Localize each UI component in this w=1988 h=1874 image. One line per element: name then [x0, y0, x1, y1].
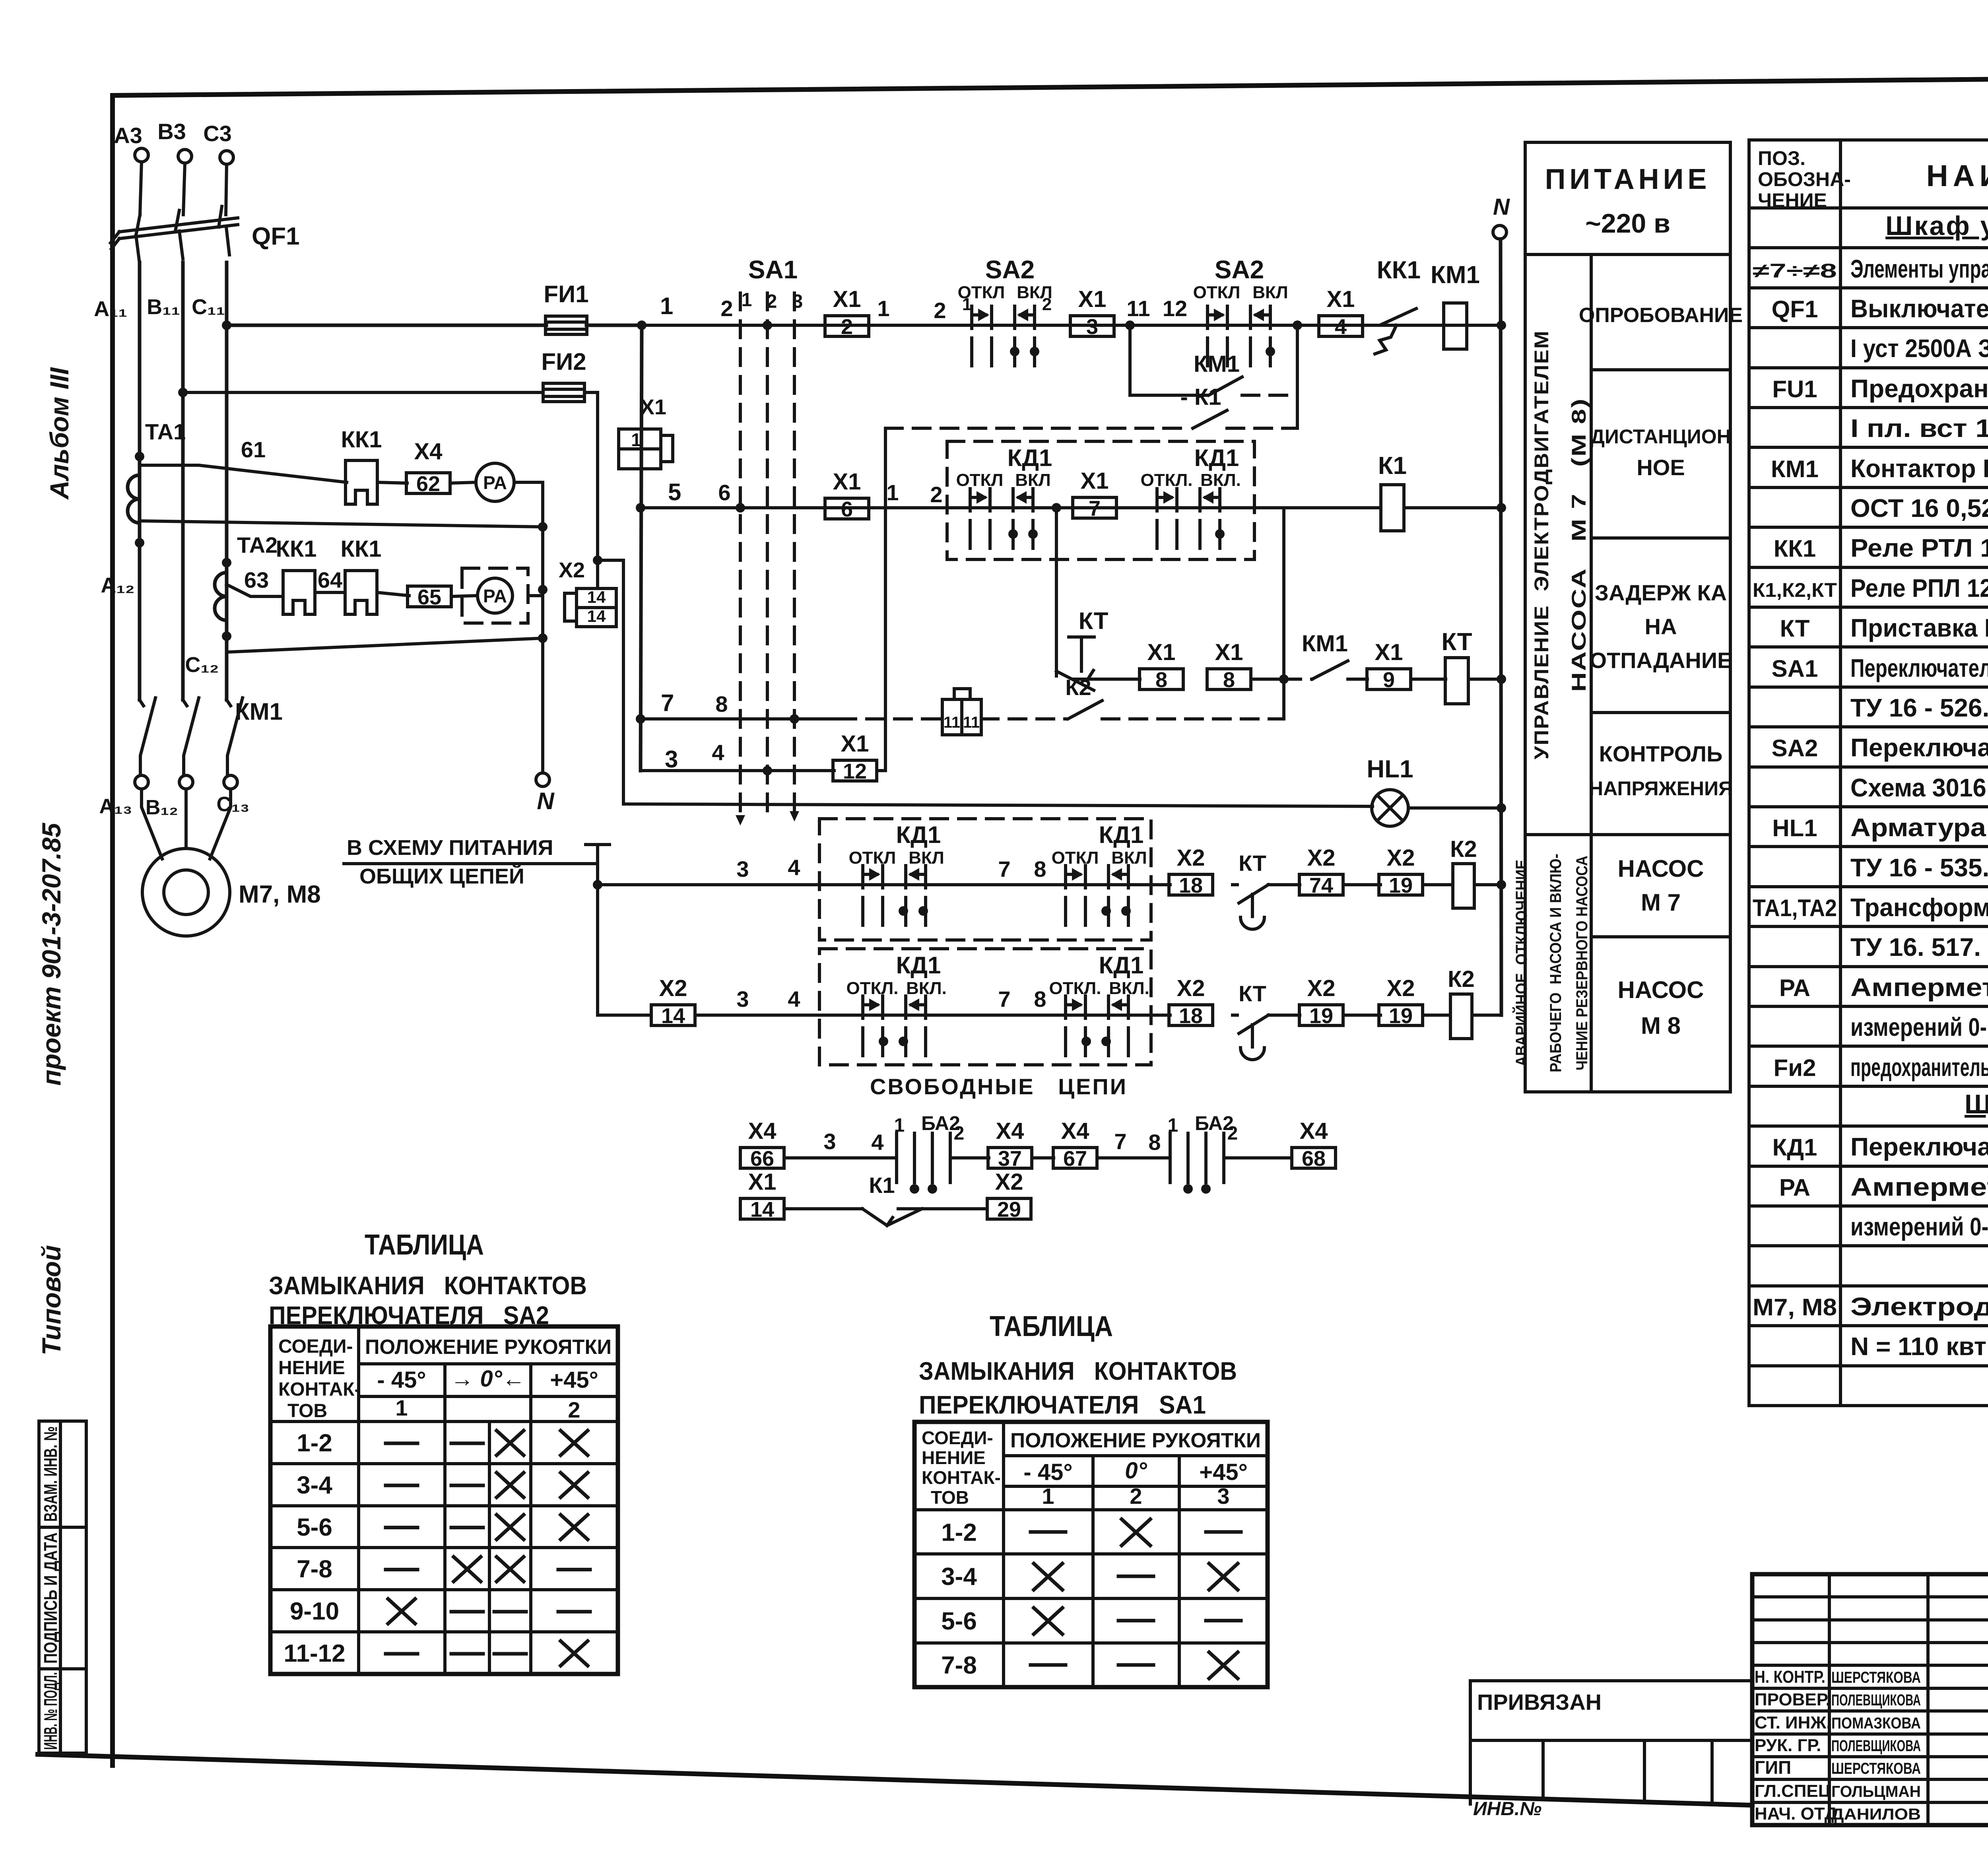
N bus vertical: [1501, 239, 1501, 1015]
svg-text:НАСОСА М 7 (М 8): НАСОСА М 7 (М 8): [1568, 398, 1590, 692]
svg-text:КМ1: КМ1: [235, 698, 283, 725]
svg-text:1: 1: [886, 480, 899, 505]
pushbutton KT branch: [1055, 508, 1058, 676]
svg-text:ОПРОБОВАНИЕ: ОПРОБОВАНИЕ: [1579, 304, 1743, 327]
relay contact K1 11-11 block: [942, 699, 962, 735]
svg-text:Х2: Х2: [1387, 975, 1415, 1001]
svg-text:SA2: SA2: [1772, 735, 1818, 761]
svg-text:ВКЛ: ВКЛ: [909, 848, 944, 868]
svg-text:ЗАДЕРЖ КА: ЗАДЕРЖ КА: [1595, 580, 1727, 605]
svg-text:67: 67: [1063, 1147, 1087, 1171]
connector X2 14 M8: [651, 1005, 695, 1025]
svg-text:2: 2: [930, 482, 942, 507]
connector X1 6: [825, 498, 869, 519]
node row1-right: [1293, 320, 1302, 330]
svg-text:КД1: КД1: [1773, 1134, 1817, 1161]
svg-text:А3: А3: [114, 123, 142, 148]
svg-text:КД1: КД1: [1099, 952, 1144, 979]
svg-text:В₁₂: В₁₂: [146, 796, 178, 819]
svg-text:Типовой: Типовой: [37, 1245, 66, 1355]
svg-text:ИНВ.№: ИНВ.№: [1473, 1798, 1541, 1820]
svg-text:предохранитель ПРС 6УЗ-П I пл.: предохранитель ПРС 6УЗ-П I пл.вст=1А ТУ1…: [1850, 1053, 1988, 1082]
svg-text:1: 1: [877, 296, 889, 321]
switch KD1 group2: [1157, 489, 1220, 548]
svg-text:66: 66: [750, 1147, 774, 1171]
svg-text:НА: НА: [1645, 614, 1677, 639]
svg-text:НАЧ. ОТД: НАЧ. ОТД: [1755, 1804, 1837, 1824]
svg-text:61: 61: [241, 437, 266, 462]
svg-text:КК1: КК1: [276, 536, 316, 562]
svg-text:НАПРЯЖЕНИЯ: НАПРЯЖЕНИЯ: [1589, 777, 1733, 800]
svg-text:Х2: Х2: [1307, 975, 1336, 1001]
svg-text:1: 1: [1168, 1115, 1178, 1136]
svg-text:КД1: КД1: [1194, 445, 1239, 471]
svg-text:КМ1: КМ1: [1194, 351, 1240, 377]
switch SA2 free group2: [1170, 1133, 1224, 1183]
svg-text:65: 65: [417, 585, 441, 609]
svg-text:КД1: КД1: [1008, 445, 1052, 471]
svg-text:1: 1: [742, 289, 752, 311]
svg-text:ВКЛ: ВКЛ: [1111, 848, 1147, 868]
switch SA2 group1: [972, 306, 1035, 366]
svg-text:12: 12: [843, 759, 867, 783]
svg-text:ОСТ 16 0,52 4.001 - 72: ОСТ 16 0,52 4.001 - 72: [1850, 494, 1988, 522]
svg-text:1-2: 1-2: [941, 1519, 977, 1546]
svg-text:2: 2: [954, 1123, 965, 1144]
svg-text:7-8: 7-8: [297, 1556, 332, 1583]
svg-text:63: 63: [244, 567, 269, 592]
svg-text:ОТКЛ.: ОТКЛ.: [846, 979, 898, 998]
phase wire A11: [138, 262, 142, 700]
svg-text:FИ1: FИ1: [544, 281, 588, 307]
switch KD1 group1 M7: [863, 866, 926, 925]
connector X4 68: [1292, 1148, 1336, 1168]
svg-text:Н. КОНТР.: Н. КОНТР.: [1755, 1667, 1825, 1687]
svg-text:ТА1: ТА1: [145, 419, 186, 444]
contactor KM1 main contacts: [140, 698, 155, 775]
svg-text:1: 1: [631, 429, 641, 450]
svg-text:ТА2: ТА2: [237, 532, 278, 557]
svg-text:8: 8: [1148, 1130, 1161, 1155]
svg-text:М 7: М 7: [1641, 889, 1681, 916]
svg-text:- К1: - К1: [1180, 384, 1221, 410]
wire C3 stub: [226, 164, 227, 215]
svg-text:Альбом III: Альбом III: [45, 367, 74, 500]
connector X2 14/14: [596, 560, 599, 588]
wire row1: [642, 324, 1501, 327]
node 1: [637, 320, 646, 330]
svg-text:74: 74: [1309, 874, 1333, 897]
svg-text:КК1: КК1: [1377, 256, 1421, 284]
svg-text:К1: К1: [869, 1173, 895, 1198]
svg-text:4: 4: [1335, 315, 1347, 339]
svg-text:НЕНИЕ: НЕНИЕ: [278, 1357, 345, 1379]
terminal C3: [220, 151, 233, 164]
svg-text:ДИСТАНЦИОН: ДИСТАНЦИОН: [1590, 425, 1731, 448]
svg-text:ПОМАЗКОВА: ПОМАЗКОВА: [1831, 1715, 1921, 1732]
svg-text:SA2: SA2: [1215, 255, 1264, 284]
svg-text:Х2: Х2: [995, 1169, 1023, 1195]
svg-text:ПРИВЯЗАН: ПРИВЯЗАН: [1477, 1690, 1602, 1715]
motor M7,M8: [142, 789, 231, 859]
svg-text:62: 62: [416, 472, 440, 496]
svg-text:Арматура АМЕ 32322124 2: Арматура АМЕ 32322124 2 ~ 220 В: [1850, 813, 1988, 842]
svg-text:1: 1: [395, 1395, 408, 1420]
svg-text:8: 8: [1155, 668, 1167, 692]
svg-text:1: 1: [894, 1115, 905, 1136]
svg-text:Х2: Х2: [659, 975, 687, 1001]
switch KD1 group1: [970, 489, 1033, 548]
svg-text:ВКЛ.: ВКЛ.: [1109, 979, 1149, 998]
svg-text:ВКЛ: ВКЛ: [1252, 283, 1288, 302]
svg-text:I пл. вст 10А ТУ 16 - 522.: I пл. вст 10А ТУ 16 - 522. 112 - 74.: [1850, 414, 1988, 443]
svg-text:Х1: Х1: [833, 469, 861, 495]
connector X4 66: [740, 1148, 784, 1168]
svg-text:Х2: Х2: [1177, 845, 1205, 871]
svg-text:≠7÷≠8: ≠7÷≠8: [1753, 260, 1837, 282]
svg-text:N = 110 квт: N = 110 квт: [1850, 1332, 1986, 1361]
svg-text:РУК. ГР.: РУК. ГР.: [1755, 1736, 1821, 1755]
svg-text:19: 19: [1389, 1004, 1413, 1028]
svg-text:Электродвигатель 4А 315: Электродвигатель 4А 315S6 УЗ: [1850, 1292, 1988, 1321]
svg-text:Х1: Х1: [833, 286, 861, 312]
connector X4 62: [406, 473, 450, 493]
svg-text:Х1: Х1: [1078, 286, 1107, 312]
svg-text:ПОЗ.: ПОЗ.: [1758, 147, 1806, 169]
switch KD1 group2 M8: [1066, 996, 1128, 1056]
svg-text:12: 12: [1163, 296, 1187, 321]
svg-text:ТА1,ТА2: ТА1,ТА2: [1753, 895, 1837, 921]
svg-text:АВАРИЙНОЕ ОТКЛЮЧЕНИЕ: АВАРИЙНОЕ ОТКЛЮЧЕНИЕ: [1512, 860, 1530, 1066]
connector X2 19b M8: [1379, 1005, 1423, 1025]
svg-text:1: 1: [660, 293, 673, 319]
svg-text:ТАБЛИЦА: ТАБЛИЦА: [365, 1229, 484, 1261]
node M7 feed: [593, 880, 602, 889]
svg-text:2: 2: [1042, 295, 1052, 314]
svg-text:8: 8: [1034, 987, 1046, 1012]
svg-text:РА: РА: [1779, 1174, 1810, 1201]
svg-text:КД1: КД1: [1099, 821, 1144, 848]
connector X1 8: [1140, 669, 1183, 689]
svg-text:Предохранитель ПРС - 25 УЗ-: Предохранитель ПРС - 25 УЗ-П: [1850, 374, 1988, 403]
svg-text:8: 8: [715, 691, 728, 717]
connector X2 18 M7: [1169, 874, 1213, 895]
svg-text:Х1: Х1: [841, 731, 869, 757]
remote switch KD1 box M7: [819, 819, 1151, 940]
connector X1 12: [833, 760, 877, 781]
svg-text:В₁₁: В₁₁: [147, 295, 180, 319]
svg-text:ПЕРЕКЛЮЧАТЕЛЯ SA1: ПЕРЕКЛЮЧАТЕЛЯ SA1: [919, 1390, 1206, 1419]
connector 65: [408, 586, 451, 607]
motor terminals: [135, 775, 148, 789]
svg-text:НАСОС: НАСОС: [1617, 977, 1704, 1003]
wire pump M8 feed: [598, 885, 651, 1015]
phase wire B11: [181, 262, 185, 700]
svg-text:ПОЛЕВЩИКОВА: ПОЛЕВЩИКОВА: [1831, 1737, 1921, 1755]
svg-text:5-6: 5-6: [941, 1608, 977, 1635]
left margin rotated captions: [37, 367, 74, 1355]
svg-text:А₁₁: А₁₁: [94, 297, 127, 321]
svg-text:Х4: Х4: [996, 1118, 1024, 1144]
svg-text:QF1: QF1: [1772, 296, 1818, 322]
svg-text:64: 64: [318, 567, 342, 592]
svg-text:HL1: HL1: [1772, 815, 1817, 841]
svg-text:+45°: +45°: [550, 1367, 598, 1393]
node KT branch: [1052, 503, 1061, 513]
svg-text:С3: С3: [203, 121, 232, 146]
svg-text:4: 4: [788, 855, 800, 880]
svg-text:Переключатель ПКУЗ - 12А - 30: Переключатель ПКУЗ - 12А - 3016: [1850, 1132, 1988, 1161]
remote switch KD1 box M8: [819, 949, 1151, 1065]
connector X1 3: [1070, 316, 1114, 336]
wire pump M7 row: [598, 883, 1170, 886]
svg-text:6: 6: [718, 480, 730, 505]
svg-text:ВКЛ: ВКЛ: [1015, 470, 1051, 490]
wire 1 row: [227, 324, 546, 327]
svg-text:проект 901-3-207.85: проект 901-3-207.85: [37, 822, 66, 1086]
SA2 contact closure table: [269, 1229, 618, 1674]
svg-text:ПОДПИСЬ И ДАТА: ПОДПИСЬ И ДАТА: [40, 1532, 61, 1664]
svg-text:1: 1: [962, 295, 972, 314]
connector X1 9: [1367, 669, 1411, 689]
svg-text:К1: К1: [1378, 452, 1407, 480]
svg-text:FU1: FU1: [1772, 376, 1817, 402]
svg-text:Х1: Х1: [1327, 286, 1355, 312]
ammeter PA lower (dashed): [462, 568, 528, 623]
switch KD1 group1 M8: [863, 996, 926, 1056]
thermal element KK1b: [345, 571, 377, 614]
KM1 aux contact branch: [1130, 325, 1206, 395]
svg-text:измерений 0- 300А ТТ 300/5А: измерений 0- 300А ТТ 300/5А ТУ 25.04-130…: [1850, 1013, 1988, 1041]
svg-text:4: 4: [871, 1130, 883, 1155]
svg-text:5: 5: [668, 479, 681, 505]
svg-text:7: 7: [998, 987, 1010, 1012]
svg-text:Переключатель ПКУЗ-12СУЗ Схема: Переключатель ПКУЗ-12СУЗ Схема 2024 рук.…: [1850, 654, 1988, 682]
wire FU2 to X2-14 drop: [584, 392, 598, 560]
svg-text:Контактор КТ 6033УЗ ~ 220 В: Контактор КТ 6033УЗ ~ 220 В б/к 23. 2р: [1850, 454, 1988, 483]
svg-text:СВОБОДНЫЕ ЦЕПИ: СВОБОДНЫЕ ЦЕПИ: [870, 1074, 1128, 1099]
svg-text:Х1: Х1: [1081, 468, 1109, 494]
node 7: [636, 714, 645, 724]
svg-text:Х1: Х1: [640, 395, 666, 419]
svg-text:11: 11: [1126, 296, 1150, 321]
svg-text:19: 19: [1309, 1004, 1333, 1028]
terminal N left: [536, 773, 549, 786]
contact -K1 branch: [885, 427, 1190, 430]
svg-text:2: 2: [934, 298, 946, 323]
svg-text:SA2: SA2: [985, 255, 1035, 284]
svg-text:1-2: 1-2: [297, 1429, 332, 1457]
svg-text:14: 14: [661, 1004, 685, 1028]
svg-text:С₁₂: С₁₂: [185, 653, 219, 677]
svg-text:ПОЛОЖЕНИЕ РУКОЯТКИ: ПОЛОЖЕНИЕ РУКОЯТКИ: [365, 1336, 612, 1359]
svg-text:ПРОВЕР.: ПРОВЕР.: [1755, 1690, 1831, 1709]
svg-text:1: 1: [1042, 1484, 1054, 1509]
svg-text:А₁₃: А₁₃: [99, 795, 132, 818]
svg-text:Х4: Х4: [1300, 1118, 1328, 1144]
svg-text:4: 4: [788, 987, 800, 1012]
connector X2 18 M8: [1169, 1005, 1213, 1025]
svg-text:2: 2: [568, 1397, 580, 1422]
svg-text:КТ: КТ: [1441, 628, 1472, 656]
svg-text:ОБЩИХ ЦЕПЕЙ: ОБЩИХ ЦЕПЕЙ: [359, 864, 524, 888]
connector X1 2: [825, 316, 869, 336]
svg-text:Схема 3016 рук. рев. ТУ 16 -: Схема 3016 рук. рев. ТУ 16 - 526.047- 74: [1850, 773, 1988, 802]
svg-text:КОНТРОЛЬ: КОНТРОЛЬ: [1599, 741, 1723, 766]
svg-text:К2: К2: [1065, 675, 1091, 700]
svg-text:2: 2: [1227, 1123, 1238, 1144]
svg-text:+45°: +45°: [1199, 1459, 1248, 1485]
svg-text:3-4: 3-4: [941, 1563, 977, 1590]
fuse FU2: [543, 383, 584, 402]
svg-text:НАИМЕНОВАНИЕ: НАИМЕНОВАНИЕ: [1926, 159, 1988, 193]
connector X4 37: [988, 1148, 1032, 1168]
node FU2 drop: [593, 555, 602, 565]
svg-text:Амперметр Э 377 кл. 1. 0: Амперметр Э 377 кл. 1. 0 предел: [1850, 973, 1988, 1002]
svg-text:КК1: КК1: [1774, 535, 1816, 562]
svg-text:ТАБЛИЦА: ТАБЛИЦА: [990, 1311, 1113, 1342]
svg-text:В3: В3: [157, 119, 186, 144]
svg-text:УПРАВЛЕНИЕ ЭЛЕКТРОДВИГАТЕЛЕМ: УПРАВЛЕНИЕ ЭЛЕКТРОДВИГАТЕЛЕМ: [1530, 330, 1553, 759]
svg-text:НАСОС: НАСОС: [1617, 855, 1704, 882]
svg-text:5-6: 5-6: [297, 1514, 332, 1541]
svg-text:- 45°: - 45°: [377, 1367, 426, 1393]
svg-text:КОНТАК-: КОНТАК-: [278, 1379, 361, 1400]
parts list table: [1749, 140, 1988, 1406]
wire A3 stub: [140, 162, 142, 215]
connector X1 14: [740, 1198, 784, 1219]
svg-text:Х4: Х4: [1061, 1118, 1089, 1144]
svg-text:ДАНИЛОВ: ДАНИЛОВ: [1831, 1806, 1921, 1823]
svg-text:измерений 0-300А ТТ 300/5А: измерений 0-300А ТТ 300/5А ТУ 25.04-1308…: [1850, 1212, 1988, 1241]
svg-text:М7, М8: М7, М8: [1753, 1294, 1837, 1321]
svg-text:7: 7: [661, 689, 674, 716]
svg-text:Переключатель ПКУЗ - 12А УЗ: Переключатель ПКУЗ - 12А УЗ: [1850, 733, 1988, 762]
svg-text:2: 2: [841, 315, 853, 339]
svg-text:РА: РА: [483, 472, 507, 493]
wire 61 row: [138, 456, 141, 475]
svg-text:ТУ 16. 517. 442 - 80: ТУ 16. 517. 442 - 80: [1850, 933, 1988, 961]
node B11-FU2: [178, 388, 188, 397]
svg-text:ОТКЛ.: ОТКЛ.: [1049, 979, 1101, 998]
svg-text:7: 7: [998, 856, 1010, 882]
svg-text:ПИТАНИЕ: ПИТАНИЕ: [1545, 163, 1711, 195]
svg-text:Элементы управления электродв: Элементы управления электродвигателями М…: [1850, 254, 1988, 283]
svg-text:Х2: Х2: [1307, 845, 1336, 871]
switch SA2 group2: [1208, 306, 1270, 366]
svg-text:КМ1: КМ1: [1302, 631, 1348, 656]
contact K2: [1068, 701, 1102, 719]
svg-text:К2: К2: [1448, 966, 1475, 992]
connector X1 1 on bus: [619, 429, 661, 449]
svg-text:14: 14: [750, 1198, 774, 1221]
svg-text:М 8: М 8: [1641, 1012, 1681, 1039]
svg-text:КК1: КК1: [340, 536, 381, 562]
svg-text:Х2: Х2: [1387, 845, 1415, 871]
svg-text:7-8: 7-8: [941, 1652, 977, 1679]
svg-text:ПОЛОЖЕНИЕ РУКОЯТКИ: ПОЛОЖЕНИЕ РУКОЯТКИ: [1010, 1429, 1261, 1452]
svg-text:Реле РТЛ 100804ТУ 16 - 523.: Реле РТЛ 100804ТУ 16 - 523. 549 - 82: [1850, 534, 1988, 562]
svg-text:Шкаф управления Ш7 (Ш8): Шкаф управления Ш7 (Ш8): [1885, 211, 1988, 241]
svg-text:КОНТАК-: КОНТАК-: [922, 1467, 1001, 1488]
svg-text:9: 9: [1383, 668, 1395, 692]
wire TA2 return: [227, 638, 543, 652]
svg-text:С₁₁: С₁₁: [192, 295, 225, 319]
svg-text:ТОВ: ТОВ: [931, 1487, 969, 1508]
svg-text:18: 18: [1179, 1004, 1203, 1028]
svg-text:Х2: Х2: [559, 558, 585, 582]
thermal element KK1a: [283, 571, 315, 614]
title block: [1470, 1574, 1988, 1860]
svg-text:СОЕДИ-: СОЕДИ-: [278, 1336, 353, 1357]
svg-text:2: 2: [1130, 1484, 1142, 1509]
svg-text:ОБОЗНА-: ОБОЗНА-: [1758, 168, 1851, 190]
wire to lamp bus: [598, 560, 1373, 806]
svg-text:ОТКЛ: ОТКЛ: [956, 470, 1004, 490]
thermal element KK1: [346, 460, 377, 504]
circuit breaker QF1: [119, 218, 238, 239]
wire row2: [641, 506, 947, 509]
svg-text:ОТКЛ: ОТКЛ: [1193, 283, 1241, 302]
svg-text:ОТКЛ: ОТКЛ: [849, 848, 896, 868]
svg-text:- 45°: - 45°: [1023, 1459, 1072, 1485]
svg-text:19: 19: [1389, 874, 1413, 897]
svg-text:11: 11: [944, 714, 960, 731]
connector X1 7: [1073, 497, 1116, 518]
svg-text:ШЕРСТЯКОВА: ШЕРСТЯКОВА: [1831, 1760, 1921, 1777]
left margin stamp boxes: [39, 1421, 86, 1753]
svg-text:3: 3: [1086, 315, 1098, 339]
svg-text:ШЕРСТЯКОВА: ШЕРСТЯКОВА: [1831, 1669, 1921, 1686]
node 11: [1125, 320, 1135, 330]
svg-text:К2: К2: [1450, 836, 1477, 862]
svg-text:0°: 0°: [1125, 1458, 1147, 1484]
svg-text:ЧЕНИЕ: ЧЕНИЕ: [1758, 189, 1827, 212]
svg-text:РА: РА: [483, 586, 507, 606]
svg-text:КТ: КТ: [1239, 851, 1266, 876]
svg-text:N: N: [537, 788, 555, 814]
connector X2 19 M7: [1379, 874, 1423, 895]
svg-text:КД1: КД1: [896, 952, 941, 979]
svg-text:СОЕДИ-: СОЕДИ-: [922, 1427, 993, 1448]
svg-text:ВЗАМ. ИНВ. №: ВЗАМ. ИНВ. №: [40, 1426, 61, 1522]
svg-text:ТОВ: ТОВ: [287, 1400, 327, 1422]
svg-text:Х1: Х1: [1147, 639, 1176, 665]
svg-text:6: 6: [841, 497, 853, 521]
wire FU2 row: [183, 391, 543, 394]
svg-text:3: 3: [736, 987, 749, 1012]
svg-text:Реле РПЛ 1220×4 ~220 В ТУ 16: Реле РПЛ 1220×4 ~220 В ТУ 16-523.554-78: [1850, 574, 1988, 602]
svg-text:SA1: SA1: [748, 255, 798, 284]
terminal N right: [1493, 225, 1507, 239]
svg-text:РАБОЧЕГО НАСОСА И ВКЛЮ-: РАБОЧЕГО НАСОСА И ВКЛЮ-: [1547, 854, 1565, 1072]
svg-text:КМ1: КМ1: [1771, 456, 1819, 482]
svg-text:Х4: Х4: [748, 1118, 777, 1144]
remote switch KD1 dashed box: [947, 441, 1254, 559]
fuse FU1: [546, 316, 587, 334]
svg-text:7: 7: [1089, 497, 1101, 520]
SA1 contact closure table: [914, 1311, 1268, 1687]
svg-text:14: 14: [587, 607, 606, 625]
terminal A3: [135, 148, 148, 162]
svg-text:9-10: 9-10: [290, 1598, 339, 1625]
svg-text:Х2: Х2: [1177, 975, 1205, 1001]
contact KM1 row3: [1279, 674, 1289, 684]
svg-text:Трансформатор ТК - 40 - 1. У: Трансформатор ТК - 40 - 1. УЗ I 300/ 5А: [1850, 893, 1988, 922]
svg-text:СТ. ИНЖ.: СТ. ИНЖ.: [1755, 1713, 1831, 1732]
svg-text:→ 0°←: → 0°←: [450, 1366, 525, 1392]
connector X2 74: [1299, 874, 1343, 895]
